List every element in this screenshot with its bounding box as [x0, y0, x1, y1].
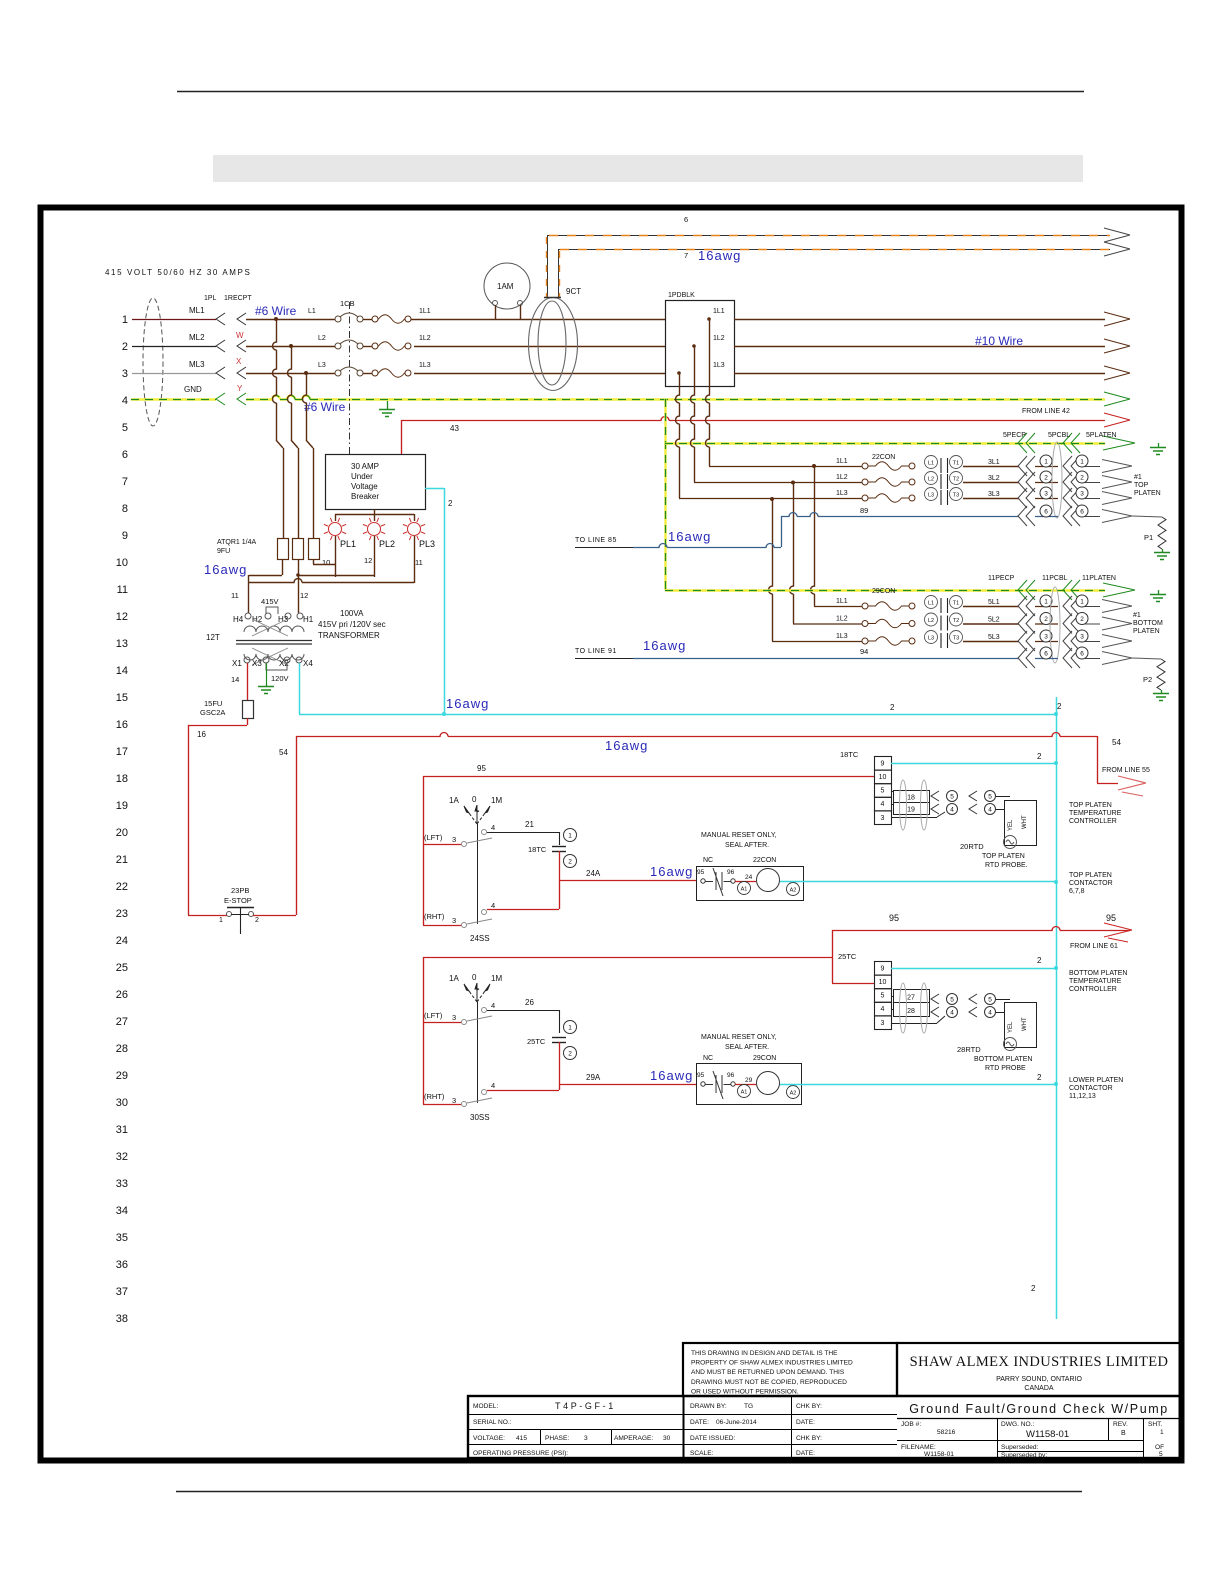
svg-text:3L2: 3L2 [988, 475, 1000, 482]
svg-text:FROM LINE 55: FROM LINE 55 [1102, 767, 1150, 774]
top platen fuse 22CON row 3 [862, 495, 868, 501]
bottom platen cable ellipse 11PCBL [1050, 587, 1060, 663]
svg-text:7: 7 [684, 251, 688, 260]
svg-text:2: 2 [1037, 956, 1042, 965]
svg-text:12: 12 [116, 611, 128, 623]
svg-text:3L3: 3L3 [988, 491, 1000, 498]
svg-text:5: 5 [988, 793, 992, 800]
wire 1L1 to distribution block [411, 319, 665, 321]
svg-text:1L1: 1L1 [836, 458, 848, 465]
pilot light PL2 [368, 523, 381, 536]
probe connector arrows/pins (top) [931, 791, 939, 801]
svg-text:1: 1 [219, 917, 223, 924]
platen ground feed bottom yellow/green [665, 589, 1105, 591]
svg-text:W1158-01: W1158-01 [924, 1451, 954, 1458]
terminal 3 wire [891, 817, 937, 819]
top platen wire 3L1 [963, 466, 1019, 468]
svg-text:T1: T1 [953, 601, 959, 607]
svg-text:Superseded by:: Superseded by: [1001, 1452, 1047, 1459]
svg-text:1M: 1M [491, 796, 502, 805]
svg-text:T3: T3 [953, 493, 959, 499]
top platen contact L-T row 1 [925, 456, 938, 469]
svg-text:33: 33 [116, 1178, 128, 1190]
svg-text:27: 27 [116, 1016, 128, 1028]
drop wire from L3 to fuse 9FU-3 [303, 373, 307, 440]
svg-text:1: 1 [1160, 1429, 1164, 1436]
svg-text:30: 30 [116, 1097, 128, 1109]
svg-text:1L2: 1L2 [713, 335, 725, 342]
transformer primary winding [244, 626, 304, 632]
svg-text:PHASE:: PHASE: [545, 1435, 569, 1442]
top platen wire 3L3 [963, 498, 1019, 500]
svg-text:37: 37 [116, 1286, 128, 1298]
svg-text:ML2: ML2 [189, 333, 205, 342]
wire 54 drop to FROM LINE 55 [1097, 736, 1099, 783]
svg-text:29CON: 29CON [753, 1055, 776, 1062]
svg-text:GND: GND [184, 385, 202, 394]
fuse 15FU [243, 701, 254, 719]
incoming cable sheath ellipse [143, 298, 163, 426]
wire 12 from PL2 [374, 536, 376, 577]
breaker 1CB trip link dash-dot line [349, 302, 351, 454]
drawing border frame [41, 208, 1182, 1461]
wire 95 selector riser [423, 776, 425, 925]
svg-text:5PLATEN: 5PLATEN [1086, 432, 1117, 439]
top platen ground arrows [1018, 433, 1027, 453]
bottom platen connector pins row 3 [1018, 631, 1027, 651]
resistor P1 [1132, 516, 1162, 517]
svg-text:#6 Wire: #6 Wire [304, 400, 346, 414]
title block job/dwg cells [997, 1418, 999, 1458]
wire 11 from PL3 [414, 536, 416, 583]
415V tap bracket [266, 607, 278, 614]
ground symbol on ground bus [387, 401, 389, 409]
svg-text:0: 0 [472, 973, 477, 982]
svg-text:22CON: 22CON [872, 454, 895, 461]
svg-text:3: 3 [452, 916, 456, 925]
svg-text:AND MUST BE RETURNED UPON DEMA: AND MUST BE RETURNED UPON DEMAND. THIS [691, 1369, 845, 1376]
drop 1L3 to top platen contactor [676, 386, 680, 498]
svg-text:T1: T1 [953, 461, 959, 467]
svg-text:11PCBL: 11PCBL [1042, 575, 1068, 582]
cyan control bus horizontal net 2 [299, 714, 1056, 716]
svg-text:A1: A1 [741, 887, 748, 893]
svg-text:29CON: 29CON [872, 588, 895, 595]
receptacle arrow GND [237, 393, 246, 405]
svg-text:WHT: WHT [1022, 1017, 1028, 1031]
svg-text:32: 32 [116, 1151, 128, 1163]
wire block 18/19 [894, 791, 930, 815]
wire 29A from 25TC [559, 1042, 561, 1084]
svg-text:94: 94 [860, 647, 868, 656]
svg-text:20RTD: 20RTD [960, 842, 984, 851]
svg-text:27: 27 [907, 995, 915, 1002]
svg-text:2: 2 [1057, 702, 1062, 711]
fuse 9FU-2 [293, 539, 304, 560]
svg-text:SEAL AFTER.: SEAL AFTER. [725, 842, 769, 849]
wire 89 connector pins [1018, 506, 1027, 526]
svg-text:96: 96 [727, 869, 735, 876]
tap junction row1 [274, 317, 278, 321]
svg-text:2: 2 [1080, 474, 1084, 481]
selector switch 24SS position arrows [469, 813, 477, 824]
drop 1L1 to top platen contactor [706, 386, 710, 466]
svg-text:SHAW ALMEX INDUSTRIES LIMIT: SHAW ALMEX INDUSTRIES LIMITED [910, 1354, 1169, 1370]
fuse 9FU-3 [309, 539, 320, 560]
svg-text:22: 22 [116, 881, 128, 893]
svg-text:DATE:: DATE: [796, 1419, 815, 1426]
svg-text:SCALE:: SCALE: [690, 1450, 714, 1457]
svg-text:7: 7 [122, 476, 128, 488]
svg-text:PL1: PL1 [340, 539, 356, 549]
bottom platen fuse 29CON row 3 [862, 638, 868, 644]
line number column 1-38 [116, 314, 128, 1325]
top platen connector pins row 3 [1018, 488, 1027, 508]
svg-text:1: 1 [1044, 458, 1048, 465]
title block main table outline [468, 1396, 1181, 1458]
svg-text:1A: 1A [449, 796, 459, 805]
svg-text:28: 28 [116, 1043, 128, 1055]
transformer primary terminals H4 H2 H3 H1 [245, 613, 251, 619]
svg-text:T4P-GF-1: T4P-GF-1 [555, 1401, 616, 1411]
svg-text:(LFT): (LFT) [424, 833, 443, 842]
svg-text:3: 3 [122, 368, 128, 380]
wire 95 lower run [423, 957, 832, 959]
svg-text:L1: L1 [308, 308, 316, 315]
svg-text:Superseded:: Superseded: [1001, 1444, 1039, 1451]
svg-text:PL3: PL3 [419, 539, 435, 549]
svg-text:1L1: 1L1 [713, 308, 725, 315]
svg-text:BOTTOM PLATEN: BOTTOM PLATEN [974, 1056, 1032, 1063]
svg-text:WHT: WHT [1022, 815, 1028, 829]
svg-text:9: 9 [881, 965, 885, 972]
ground at P1 [1162, 549, 1164, 552]
svg-text:34: 34 [116, 1205, 128, 1217]
svg-text:19: 19 [116, 800, 128, 812]
svg-text:3: 3 [452, 1013, 456, 1022]
svg-text:OPERATING PRESSURE (PSI):: OPERATING PRESSURE (PSI): [473, 1450, 568, 1457]
ground symbol at X3 [266, 684, 268, 686]
svg-text:MANUAL RESET ONLY,: MANUAL RESET ONLY, [701, 1034, 777, 1041]
top platen fuse 22CON row 2 [862, 479, 868, 485]
fuse 9FU-1 [278, 539, 289, 560]
ground at P2 [1161, 690, 1163, 693]
transformer core [236, 640, 312, 642]
CT secondary lead to line 7 [558, 249, 560, 297]
coil 22CON A1-A2 [738, 882, 751, 895]
svg-text:GSC2A: GSC2A [200, 708, 225, 717]
wire 24 to coil [735, 881, 756, 883]
drop wire to bottom platen 1L1 [811, 466, 815, 606]
svg-text:W: W [236, 331, 244, 340]
svg-text:1: 1 [1080, 598, 1084, 605]
wire L3 to breaker 1CB [246, 373, 335, 375]
svg-text:1A: 1A [449, 974, 459, 983]
top platen connector pins row 2 [1018, 472, 1027, 492]
svg-text:1L3: 1L3 [419, 362, 431, 369]
svg-text:5PECP: 5PECP [1003, 432, 1026, 439]
svg-text:LOWER PLATEN: LOWER PLATEN [1069, 1077, 1123, 1084]
svg-text:16awg: 16awg [446, 696, 489, 711]
wire 29 to coil [735, 1084, 756, 1086]
cyan wire terminal 9 to net 2 (bottom) [891, 968, 1056, 970]
ground bus right arrow [1104, 392, 1130, 406]
top platen connector pins row 1 [1018, 456, 1027, 476]
CT secondary junction bar [544, 297, 561, 299]
svg-text:13: 13 [116, 638, 128, 650]
svg-text:29: 29 [745, 1077, 753, 1084]
svg-text:1RECPT: 1RECPT [224, 295, 252, 302]
svg-text:DATE ISSUED:: DATE ISSUED: [690, 1435, 735, 1442]
wire block 27/28 [894, 990, 930, 1017]
svg-text:(RHT): (RHT) [424, 1092, 445, 1101]
top platen fuse 22CON row 1 [862, 463, 868, 469]
svg-text:1: 1 [1044, 598, 1048, 605]
svg-text:14: 14 [116, 665, 128, 677]
svg-text:3: 3 [584, 1435, 588, 1442]
wire 95 to FROM LINE 61 [832, 927, 1130, 931]
probe connector arrows/pins (bottom) [931, 994, 939, 1004]
svg-text:16: 16 [197, 730, 206, 739]
svg-text:58216: 58216 [937, 1429, 956, 1436]
svg-text:3: 3 [452, 835, 456, 844]
wire 25TC to RHT contact [559, 1084, 561, 1090]
wire 6 right arrow [1104, 228, 1130, 242]
tap junction row2 [289, 344, 293, 348]
svg-text:30 AMP: 30 AMP [351, 462, 379, 471]
svg-text:43: 43 [450, 424, 459, 433]
top platen cable ellipse 5PCBL [1052, 442, 1062, 518]
plug arrow GND [216, 393, 225, 405]
svg-text:TRANSFORMER: TRANSFORMER [318, 631, 380, 640]
svg-text:4: 4 [491, 1081, 495, 1090]
svg-text:ML1: ML1 [189, 306, 205, 315]
receptacle arrow L2 [237, 340, 246, 352]
terminal 3 wire (bottom) [891, 1023, 937, 1025]
svg-text:DRAWN BY:: DRAWN BY: [690, 1403, 727, 1410]
svg-text:89: 89 [860, 506, 868, 515]
svg-text:5L1: 5L1 [988, 599, 1000, 606]
ground bus yellow/green row 4 across sheet [246, 396, 1105, 400]
svg-text:415V pri /120V sec: 415V pri /120V sec [318, 620, 386, 629]
svg-text:JOB #:: JOB #: [901, 1421, 921, 1428]
svg-text:25: 25 [116, 962, 128, 974]
svg-text:CONTROLLER: CONTROLLER [1069, 818, 1117, 825]
svg-text:Y: Y [237, 384, 243, 393]
svg-text:TOP: TOP [1134, 482, 1149, 489]
ammeter lead right [520, 305, 522, 319]
drop wire to bottom platen 1L3 [769, 499, 773, 641]
svg-text:3: 3 [1080, 490, 1084, 497]
terminals 5/4 to probe circuit (bottom) [891, 996, 893, 998]
svg-text:PLATEN: PLATEN [1134, 490, 1161, 497]
svg-text:24: 24 [745, 874, 753, 881]
coil 29CON A1-A2 [738, 1085, 751, 1098]
svg-text:1L3: 1L3 [836, 490, 848, 497]
svg-text:21: 21 [116, 854, 128, 866]
svg-text:0: 0 [472, 795, 477, 804]
svg-text:Ground Fault/Ground Check W: Ground Fault/Ground Check W/Pump [909, 1402, 1169, 1416]
receptacle arrow L1 [237, 313, 246, 325]
svg-text:PL2: PL2 [379, 539, 395, 549]
svg-text:2: 2 [255, 917, 259, 924]
fuse 9FU-2 output to H1 [298, 559, 300, 613]
svg-text:6: 6 [1044, 508, 1048, 515]
svg-text:A2: A2 [790, 1091, 797, 1097]
svg-text:X: X [236, 357, 242, 366]
svg-text:95: 95 [889, 913, 899, 923]
svg-text:FROM LINE 42: FROM LINE 42 [1022, 408, 1070, 415]
svg-text:31: 31 [116, 1124, 128, 1136]
svg-text:22CON: 22CON [753, 857, 776, 864]
svg-text:TOP PLATEN: TOP PLATEN [982, 853, 1025, 860]
svg-text:95: 95 [477, 764, 486, 773]
wire 1L2 to distribution block [414, 346, 665, 348]
svg-text:CHK BY:: CHK BY: [796, 1403, 822, 1410]
svg-text:2: 2 [1044, 616, 1048, 623]
svg-text:11: 11 [415, 558, 423, 567]
bottom platen wire 5L2 [963, 623, 1019, 625]
svg-text:15: 15 [116, 692, 128, 704]
svg-text:BOTTOM PLATEN: BOTTOM PLATEN [1069, 970, 1127, 977]
svg-text:18TC: 18TC [840, 750, 859, 759]
cyan from 29CON coil to net 2 [780, 1084, 1056, 1086]
X4 cyan wire down [299, 663, 301, 714]
bottom platen fuse 29CON row 1 [862, 603, 868, 609]
svg-text:1L3: 1L3 [713, 362, 725, 369]
header rule line [177, 91, 1084, 93]
svg-text:X1: X1 [232, 659, 242, 668]
svg-text:L2: L2 [318, 335, 326, 342]
svg-text:16awg: 16awg [650, 864, 693, 879]
ground wire GND incoming yellow/green [131, 398, 216, 400]
svg-text:4: 4 [950, 1009, 954, 1016]
svg-text:415V: 415V [261, 597, 279, 606]
bottom platen fuse 29CON row 2 [862, 621, 868, 627]
ground bus drop yellow/green [664, 399, 666, 590]
svg-text:25TC: 25TC [838, 952, 857, 961]
current transformer 9CT ring [529, 298, 578, 391]
svg-text:20: 20 [116, 827, 128, 839]
svg-text:28RTD: 28RTD [957, 1045, 981, 1054]
selector switch 30SS mechanical link [477, 1002, 479, 1103]
contactor 29CON enclosure [697, 1064, 802, 1105]
cyan control bus vertical net 2 [1056, 697, 1058, 1319]
footer rule line [176, 1491, 1082, 1493]
title block disclaimer box [683, 1343, 897, 1396]
ammeter lead left [495, 305, 497, 319]
fuse 9FU-3 output to PL1 wire 10 [313, 559, 315, 564]
svg-text:16awg: 16awg [698, 248, 741, 263]
breaker 1CB pole L2 [335, 343, 341, 349]
wire 7 (CT secondary) with orange marking [558, 249, 1110, 251]
svg-text:15FU: 15FU [204, 699, 222, 708]
svg-text:5L3: 5L3 [988, 634, 1000, 641]
svg-text:25TC: 25TC [527, 1037, 546, 1046]
svg-text:5PCBL: 5PCBL [1048, 432, 1070, 439]
wire 10 from PL1 [335, 536, 337, 577]
svg-text:#1: #1 [1134, 474, 1142, 481]
svg-text:415: 415 [516, 1435, 527, 1442]
top platen ground symbol [1158, 443, 1160, 447]
svg-text:ATQR1 1/4A: ATQR1 1/4A [217, 539, 256, 546]
svg-text:5: 5 [950, 793, 954, 800]
svg-text:54: 54 [1112, 738, 1121, 747]
svg-text:3: 3 [452, 1096, 456, 1105]
svg-text:23: 23 [116, 908, 128, 920]
svg-text:DRAWING MUST NOT BE COPIED, RE: DRAWING MUST NOT BE COPIED, REPRODUCED [691, 1379, 847, 1386]
svg-text:24A: 24A [586, 869, 601, 878]
svg-text:2: 2 [1037, 752, 1042, 761]
svg-text:CONTACTOR: CONTACTOR [1069, 880, 1113, 887]
svg-text:TOP PLATEN: TOP PLATEN [1069, 802, 1112, 809]
top platen contact L-T row 2 [925, 472, 938, 485]
svg-text:95: 95 [697, 869, 705, 876]
wire ML3 incoming [132, 373, 216, 375]
svg-text:1: 1 [568, 1024, 572, 1031]
title block drawn-by column [791, 1396, 793, 1458]
svg-text:5: 5 [122, 422, 128, 434]
svg-text:MODEL:: MODEL: [473, 1403, 498, 1410]
svg-text:TEMPERATURE: TEMPERATURE [1069, 810, 1122, 817]
svg-text:9CT: 9CT [566, 287, 581, 296]
svg-text:16awg: 16awg [650, 1068, 693, 1083]
svg-text:TG: TG [744, 1403, 753, 1410]
svg-text:H1: H1 [303, 615, 314, 624]
power distribution block 1PDBLK [666, 301, 735, 387]
wire L2 to breaker 1CB [246, 346, 335, 348]
svg-text:RTD PROBE: RTD PROBE [985, 1065, 1026, 1072]
wire 26 LFT to 25TC [487, 1010, 559, 1012]
cable ellipses (bottom probe) [900, 983, 907, 1033]
svg-text:19: 19 [907, 807, 915, 814]
svg-text:6: 6 [684, 215, 688, 224]
wire 6 (CT secondary) with orange marking [547, 235, 1110, 237]
svg-text:#1: #1 [1133, 612, 1141, 619]
svg-text:8: 8 [122, 503, 128, 515]
svg-text:ML3: ML3 [189, 360, 205, 369]
selector switch 30SS position arrows [469, 991, 477, 1002]
svg-text:2: 2 [568, 1050, 572, 1057]
svg-text:24: 24 [116, 935, 128, 947]
svg-text:X4: X4 [303, 659, 313, 668]
svg-text:T2: T2 [953, 477, 959, 483]
svg-text:3L1: 3L1 [988, 459, 1000, 466]
bottom platen row 1L3 wire [772, 641, 862, 643]
svg-text:VOLTAGE:: VOLTAGE: [473, 1435, 505, 1442]
bottom platen wire 5L1 [963, 606, 1019, 608]
svg-text:1L2: 1L2 [836, 474, 848, 481]
svg-text:1L2: 1L2 [836, 616, 848, 623]
transformer secondary winding [244, 654, 304, 660]
svg-text:L3: L3 [928, 493, 934, 499]
cyan wire terminal 9 to net 2 [891, 763, 1056, 765]
svg-text:1M: 1M [491, 974, 502, 983]
svg-text:16: 16 [116, 719, 128, 731]
svg-text:1CB: 1CB [340, 299, 355, 308]
svg-text:4: 4 [491, 823, 495, 832]
wire 95 to 25TC block [832, 930, 834, 983]
svg-text:5: 5 [950, 996, 954, 1003]
svg-text:(LFT): (LFT) [424, 1011, 443, 1020]
bus under breaker to pilot lights [374, 509, 376, 514]
wire 54 from E-STOP to controllers [296, 736, 298, 915]
svg-text:30: 30 [663, 1435, 671, 1442]
svg-text:5L2: 5L2 [988, 617, 1000, 624]
svg-text:Voltage: Voltage [351, 482, 378, 491]
svg-text:TO LINE 85: TO LINE 85 [575, 537, 617, 544]
svg-text:Under: Under [351, 472, 373, 481]
